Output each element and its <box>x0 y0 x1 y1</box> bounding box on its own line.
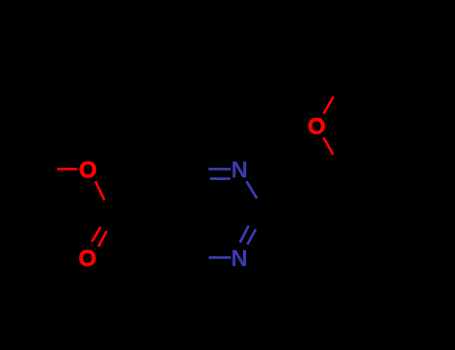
bond CH3-O1 (ester methyl to ester oxygen, red half) <box>57 168 77 171</box>
bond O3-C2' (methoxy oxygen to phenyl carbon, red half) <box>324 138 334 155</box>
bond C4=N3 inner double-bond line <box>210 177 231 180</box>
bond N1-C6 single bond (horizontal, blue half) <box>209 256 231 259</box>
svg-text:O: O <box>79 245 97 271</box>
bond N3-C2 single bond (blue half) <box>247 181 258 198</box>
svg-text:O: O <box>79 157 97 183</box>
svg-text:O: O <box>308 113 326 139</box>
bond C7=O2 carbonyl double bond, left line <box>92 227 101 242</box>
svg-text:N: N <box>231 157 248 183</box>
bond N1=C2 main line (blue half) <box>247 229 255 244</box>
bond N1=C2 inner double-bond line <box>240 226 249 243</box>
bond C4=N3 main line (horizontal, blue half) <box>208 168 230 171</box>
svg-text:N: N <box>231 245 248 271</box>
bond O3-CH3 (methoxy oxygen to methyl, red half) <box>324 97 334 114</box>
bond O1-C7 (ester oxygen to carbonyl carbon, red half) <box>95 181 104 200</box>
bond C7=O2 carbonyl double bond, right line <box>98 231 106 247</box>
